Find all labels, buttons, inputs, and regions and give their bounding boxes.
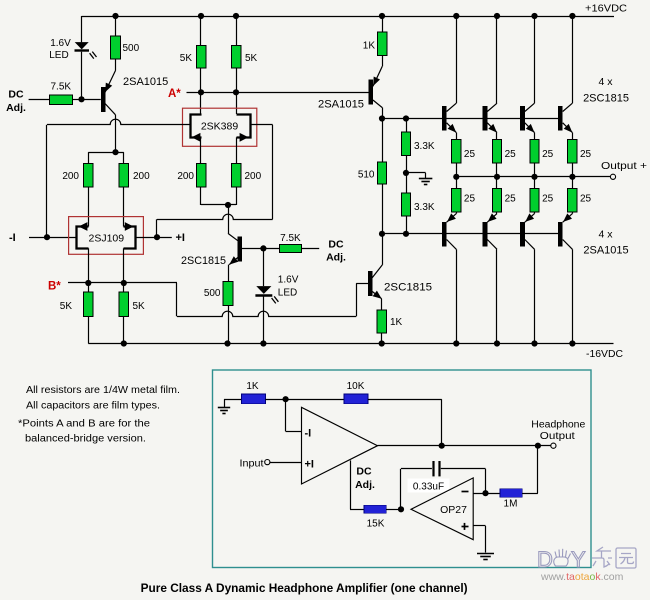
transistor Q1 2SA1015 bar — [101, 87, 106, 112]
JFET 2SJ109 left channel — [77, 227, 89, 249]
JFET 2SK389 left channel — [191, 115, 202, 138]
node dot bottom rail / output col 2 — [494, 340, 500, 346]
node dot top rail / output column 3 — [531, 13, 537, 19]
transistor output NPN 3 emitter — [525, 123, 535, 133]
svg-text:2SC1815: 2SC1815 — [583, 93, 629, 105]
transistor output PNP 1 2SA1015 bar — [442, 222, 447, 246]
transistor Q1 collector — [105, 104, 116, 115]
wire Q3 emitter down to 500 — [228, 265, 230, 282]
svg-text:2SC1815: 2SC1815 — [384, 282, 432, 294]
wire 15K to servo node — [386, 509, 401, 511]
transistor Q2 emitter — [373, 66, 382, 86]
wire 25 to output node 3 — [534, 163, 536, 177]
svg-text:200: 200 — [245, 171, 262, 182]
svg-text:All resistors are 1/4W metal f: All resistors are 1/4W metal film. — [26, 385, 180, 396]
wire + resistor 3.3K (bottom) — [406, 173, 408, 193]
svg-text:25: 25 — [580, 194, 592, 205]
ground (OP27 plus input) — [477, 553, 494, 555]
transistor Q4 emitter — [372, 292, 381, 299]
wire LED D1 cathode to base node — [81, 52, 83, 100]
wire capacitor to minus input — [441, 468, 486, 470]
resistor 25 (top row 3) — [530, 140, 539, 164]
wire +I link vertical — [156, 219, 158, 237]
node dot bottom rail / output col 1 — [453, 340, 459, 346]
node dot bottom rail / 1K — [379, 340, 385, 346]
svg-text:2SK389: 2SK389 — [201, 121, 239, 133]
svg-text:0.33uF: 0.33uF — [413, 482, 444, 493]
box 2SJ109 (red) — [69, 217, 144, 255]
wire -16VDC bottom rail — [88, 343, 613, 345]
svg-text:10K: 10K — [347, 381, 365, 392]
svg-text:3.3K: 3.3K — [414, 141, 435, 152]
node dot output node 1 — [453, 174, 459, 180]
wire A* row to Q2 base — [187, 92, 369, 94]
node dot output node 3 — [531, 174, 537, 180]
svg-text:5K: 5K — [60, 301, 73, 312]
svg-text:2SC1815: 2SC1815 — [181, 255, 226, 267]
wire + resistor 5K (top right) — [236, 16, 238, 46]
svg-text:5K: 5K — [133, 301, 146, 312]
svg-text:25: 25 — [464, 149, 476, 160]
node dot bottom rail / output col 4 — [569, 340, 575, 346]
transistor output PNP 4 emitter — [572, 212, 574, 214]
node dot bottom rail / 5K — [121, 340, 127, 346]
wire op-amp output to headphone terminal — [378, 445, 551, 447]
wire output node to 25 bottom 3 — [534, 177, 536, 189]
transistor output PNP 2 2SA1015 bar — [483, 222, 488, 246]
wire gate link across with hop — [157, 214, 273, 219]
svg-text:Adj.: Adj. — [326, 252, 346, 264]
resistor 25 (top row 1) — [452, 140, 461, 164]
wire collector output PNP 1 — [447, 240, 457, 250]
svg-text:DC: DC — [328, 238, 344, 250]
svg-text:OP27: OP27 — [440, 504, 467, 516]
svg-text:Y: Y — [571, 547, 586, 572]
wire Q4 base — [356, 283, 368, 285]
svg-text:2SA1015: 2SA1015 — [583, 245, 628, 257]
wire + resistor 5K (bottom left) — [88, 248, 90, 292]
svg-text:*Points A and B are for the: *Points A and B are for the — [18, 419, 150, 430]
node dot output node 4 — [569, 174, 575, 180]
wire +I gate — [135, 237, 172, 239]
node dot B* / 5K right — [121, 280, 127, 286]
ground (mid schematic) — [419, 178, 433, 180]
transistor Q1 emitter — [105, 71, 116, 93]
node dot -I junction — [44, 234, 50, 240]
node dot 3.3K midpoint — [403, 170, 409, 176]
terminal Headphone Output — [551, 443, 556, 448]
node dot NPN base bus / 510 — [379, 115, 385, 121]
transistor Q2 2SA1015 bar — [369, 80, 374, 105]
resistor 25 (bottom row 1) — [452, 189, 461, 213]
resistor 500 (bottom) — [223, 282, 233, 306]
wire 200 pair sources join — [201, 204, 236, 206]
wire 500 to bottom rail — [228, 306, 230, 344]
svg-text:15K: 15K — [367, 519, 385, 530]
svg-text:Adj.: Adj. — [355, 479, 375, 491]
wire across 200 pair tops (left) — [88, 152, 124, 154]
transistor output PNP 4 2SA1015 bar — [558, 222, 563, 246]
wire DC Adj. input — [29, 99, 50, 101]
transistor output PNP 3 2SA1015 bar — [520, 222, 525, 246]
wire collector output NPN 3 — [534, 16, 536, 103]
wire to mid ground — [406, 172, 426, 174]
wire 7.5K to base node — [72, 99, 81, 101]
wire K389 drain right — [236, 92, 238, 114]
node dot bottom rail / output col 3 — [531, 340, 537, 346]
resistor 25 (bottom row 3) — [530, 189, 539, 213]
svg-text:www.taotaok.com: www.taotaok.com — [540, 571, 624, 583]
svg-text:A*: A* — [168, 88, 181, 100]
wire 25 to output node 4 — [572, 163, 574, 177]
wire + resistor 510 — [382, 119, 384, 162]
node dot top rail / 5K left column — [198, 13, 204, 19]
svg-text:+I: +I — [305, 459, 314, 471]
node dot Q3 base node — [260, 245, 266, 251]
svg-text:200: 200 — [133, 171, 150, 182]
svg-text:1.6V: 1.6V — [278, 275, 299, 286]
wire output node to 25 bottom 1 — [456, 177, 458, 189]
label 0.33uF — [408, 479, 450, 493]
transistor output NPN 2 emitter — [487, 123, 497, 133]
node dot output node 2 — [494, 174, 500, 180]
transistor output NPN 4 2SC1815 bar — [558, 106, 563, 130]
transistor output NPN 1 emitter — [447, 123, 457, 133]
wire + resistor 5K (bottom right) — [123, 248, 125, 292]
wire collector output NPN 2 — [496, 16, 498, 103]
wire 10K to output node — [368, 399, 442, 401]
svg-text:25: 25 — [580, 149, 592, 160]
transistor output NPN 4 emitter — [563, 123, 573, 133]
transistor output PNP 1 emitter — [456, 212, 458, 214]
svg-text:25: 25 — [542, 149, 554, 160]
svg-text:Adj.: Adj. — [6, 102, 26, 114]
transistor output NPN 3 2SC1815 bar — [520, 106, 525, 130]
wire 1K to ground (opamp) — [224, 399, 241, 401]
node dot A* / K389 drain right — [233, 89, 239, 95]
svg-text:500: 500 — [204, 288, 221, 299]
node dot top rail / output column 4 — [569, 13, 575, 19]
svg-text:200: 200 — [62, 171, 79, 182]
resistor 1K (opamp) — [241, 394, 265, 404]
svg-text:Headphone: Headphone — [531, 420, 585, 431]
wire 510 node down to Q4 collector — [382, 234, 384, 265]
LED D1 symbol — [75, 42, 89, 49]
wire + resistor 200 (left pair, left) — [88, 152, 90, 163]
node dot A* / K389 drain left — [198, 89, 204, 95]
wire -I link up to K389 gate wire — [46, 125, 48, 237]
svg-text:DC: DC — [8, 89, 24, 101]
transistor Q4 collector diagonal — [372, 265, 382, 278]
svg-text:25: 25 — [505, 149, 517, 160]
wire output node to 25 bottom 4 — [572, 177, 574, 189]
resistor 25 (bottom row 2) — [492, 189, 501, 213]
svg-text:5K: 5K — [180, 53, 193, 64]
wire + resistor 200 (right pair, left) — [200, 137, 202, 163]
transistor Q4 2SC1815 bar — [368, 271, 373, 296]
wire Q1 collector down — [115, 115, 117, 152]
svg-text:7.5K: 7.5K — [280, 233, 301, 244]
svg-text:DC: DC — [356, 466, 372, 478]
node dot headphone node — [535, 443, 541, 449]
wire B-link up to Q4 base — [356, 283, 358, 316]
wire -I input — [29, 237, 76, 239]
node dot top rail / 1K column — [379, 13, 385, 19]
node dot inverting input node — [283, 396, 289, 402]
svg-text:200: 200 — [177, 171, 194, 182]
wire B* to bias network — [68, 282, 177, 284]
wire 25 to output node 2 — [496, 163, 498, 177]
svg-text:-I: -I — [9, 232, 16, 244]
LED D2 symbol — [256, 286, 271, 294]
transistor output NPN 2 2SC1815 bar — [483, 106, 488, 130]
wire 7.5K to DC Adj — [302, 248, 320, 250]
JFET 2SJ109 right channel — [124, 227, 136, 249]
node dot servo output node — [398, 506, 404, 512]
resistor 500 (top) — [111, 36, 121, 59]
transistor Q3 2SC1815 bar — [238, 237, 243, 262]
box op-amp section (teal) — [213, 370, 592, 568]
wire 25 to output node 1 — [456, 163, 458, 177]
node dot top rail / 5K right column — [233, 13, 239, 19]
svg-text:B*: B* — [48, 281, 61, 293]
wire base node to LED D2 — [263, 248, 265, 286]
svg-text:D: D — [537, 547, 553, 572]
wire + resistor 5K (top left) — [200, 16, 202, 46]
node dot bottom rail / 500 — [224, 340, 230, 346]
transistor Q2 collector — [373, 100, 382, 108]
resistor 25 (top row 4) — [568, 140, 577, 164]
svg-text:balanced-bridge version.: balanced-bridge version. — [25, 434, 146, 445]
wire base node to Q1 — [82, 99, 101, 101]
wire plus input to ground — [473, 525, 485, 527]
resistor 15K (opamp) — [364, 505, 386, 513]
wire DC adj link to 15K — [350, 460, 352, 509]
svg-text:3.3K: 3.3K — [414, 202, 435, 213]
svg-text:+16VDC: +16VDC — [585, 3, 627, 15]
node dot PNP base bus / 510 — [379, 231, 385, 237]
terminal Input — [265, 460, 270, 465]
svg-text:+I: +I — [176, 232, 185, 244]
svg-text:Output +: Output + — [601, 160, 647, 172]
svg-text:25: 25 — [464, 194, 476, 205]
svg-text:-16VDC: -16VDC — [586, 348, 623, 360]
wire 1K to bottom rail — [381, 333, 383, 344]
wire collector output PNP 2 — [487, 240, 497, 250]
wire B-link across with hops — [177, 311, 356, 316]
node dot feedback/output — [439, 443, 445, 449]
resistor 25 (bottom row 4) — [568, 189, 577, 213]
op-amp A1 triangle — [302, 407, 378, 484]
svg-text:-I: -I — [305, 428, 312, 440]
transistor output PNP 2 emitter — [496, 212, 498, 214]
svg-text:4 x: 4 x — [598, 76, 613, 88]
wire collector output NPN 1 — [456, 16, 458, 103]
node dot +I junction — [154, 234, 160, 240]
svg-text:Output: Output — [540, 431, 575, 442]
wire LED D1 anode from rail — [81, 16, 83, 42]
wire 1M to headphone node — [522, 493, 538, 495]
wire 1K to 10K — [265, 399, 344, 401]
resistor 1M (opamp) — [500, 489, 522, 497]
capacitor 0.33uF plates — [432, 461, 434, 476]
node dot NPN base bus / 3.3K — [403, 115, 409, 121]
wire 1K to Q2 emitter — [382, 55, 384, 66]
svg-text:500: 500 — [123, 43, 140, 54]
label plus input (OP27) — [462, 526, 469, 528]
wire K389 right gate — [250, 124, 273, 126]
wire Q4 emitter to 1K — [381, 299, 383, 310]
transistor output NPN 1 2SC1815 bar — [442, 106, 447, 130]
wire collector output NPN 4 — [572, 16, 574, 103]
svg-text:510: 510 — [358, 170, 375, 181]
svg-text:5K: 5K — [245, 53, 258, 64]
wire K389 drain left — [200, 92, 202, 114]
wire + resistor 200 (right pair, right) — [236, 137, 238, 163]
svg-text:2SA1015: 2SA1015 — [123, 76, 168, 88]
svg-text:1.6V: 1.6V — [50, 38, 71, 49]
svg-text:1K: 1K — [246, 381, 259, 392]
wire servo node up to capacitor — [400, 469, 402, 510]
wire collector output PNP 4 — [563, 240, 573, 250]
wire 500 to Q1 emitter — [115, 59, 117, 70]
wire K389 right gate link down — [272, 125, 274, 220]
svg-text:2SA1015: 2SA1015 — [318, 99, 364, 111]
node dot Q1 collector junction — [112, 149, 118, 155]
box 2SK389 (red) — [183, 108, 257, 146]
svg-text:2SJ109: 2SJ109 — [88, 233, 124, 245]
terminal Output + — [610, 174, 615, 179]
wire PNP base bus — [382, 233, 562, 235]
resistor 10K (opamp) — [344, 394, 368, 404]
transistor Q3 emitter — [229, 258, 238, 265]
svg-text:1K: 1K — [363, 41, 376, 52]
svg-text:25: 25 — [542, 194, 554, 205]
wire base node to 7.5K — [263, 248, 279, 250]
wire rail to 1K (driver) — [382, 16, 384, 32]
wire + resistor 200 (left pair, right) — [123, 152, 125, 163]
svg-text:All capacitors are film types.: All capacitors are film types. — [26, 401, 160, 412]
svg-text:7.5K: 7.5K — [51, 82, 72, 93]
svg-text:LED: LED — [49, 50, 68, 61]
resistor 7.5K (middle) — [279, 244, 301, 252]
wire K389 left gate with hop — [47, 119, 190, 124]
svg-text:LED: LED — [278, 288, 297, 299]
ground (opamp input) — [218, 407, 230, 409]
wire output node to 25 bottom 2 — [496, 177, 498, 189]
wire +16VDC top rail — [82, 16, 615, 18]
wire collector output PNP 3 — [525, 240, 535, 250]
resistor 25 (top row 2) — [492, 140, 501, 164]
node dot base of Q1 — [78, 96, 84, 102]
wire source join down to Q3 collector — [228, 205, 230, 233]
label minus input (OP27) — [462, 491, 469, 493]
resistor 1K (driver) — [377, 32, 386, 55]
transistor Q3 collector diagonal — [228, 233, 238, 240]
wire Input to +I — [270, 462, 302, 464]
wire output + node — [456, 176, 610, 178]
wire Q3 base — [242, 248, 263, 250]
resistor 1K (bottom) — [377, 310, 386, 333]
resistor 7.5K (top left) — [50, 95, 73, 104]
wire rail to 500 resistor — [115, 16, 117, 36]
wire LED D2 to bottom rail — [263, 297, 265, 344]
node dot source join — [225, 202, 231, 208]
svg-text:4 x: 4 x — [598, 229, 613, 241]
svg-text:25: 25 — [505, 194, 517, 205]
svg-text:Pure Class A Dynamic Headphone: Pure Class A Dynamic Headphone Amplifier… — [141, 582, 468, 595]
wire B-link down — [176, 283, 178, 316]
op-amp U1 OP27 triangle — [411, 478, 473, 540]
node dot B* / 5K left — [85, 280, 91, 286]
transistor output PNP 3 emitter — [534, 212, 536, 214]
svg-text:Input: Input — [240, 459, 264, 470]
wire -I link (opamp) — [285, 399, 287, 431]
svg-text:1M: 1M — [504, 499, 518, 510]
node dot minus input / capacitor — [482, 490, 488, 496]
wire + resistor 3.3K (top) — [406, 119, 408, 133]
wire NPN base bus — [382, 118, 562, 120]
node dot top rail / 500 column — [112, 13, 118, 19]
node dot top rail / output column 1 — [453, 13, 459, 19]
node dot PNP base bus / 3.3K — [403, 231, 409, 237]
node dot bottom rail / LED2 — [260, 340, 266, 346]
node dot top rail / output column 2 — [494, 13, 500, 19]
JFET 2SK389 right channel — [237, 115, 251, 138]
wire minus input to 1M — [473, 493, 500, 495]
svg-text:1K: 1K — [390, 317, 403, 328]
